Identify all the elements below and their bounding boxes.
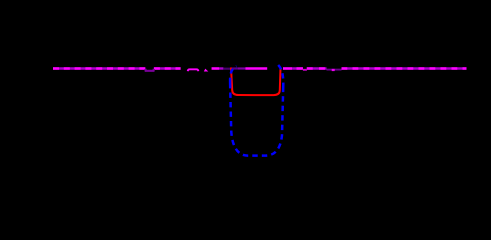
dark faint segment approaching well — [223, 68, 230, 70]
blue dashed deep well: right shoulder — [277, 64, 283, 88]
red solid well — [231, 68, 281, 96]
magenta bridge shape at x~187-198 — [188, 69, 199, 71]
bright magenta over well mouth — [246, 67, 268, 69]
magenta dashes on top of base line (left) — [53, 67, 145, 69]
purple base line (right part) — [283, 67, 467, 69]
blue dashed deep well: main body — [230, 83, 283, 156]
magenta dashes on top of base line (right) — [283, 67, 292, 69]
magenta triangle at x~204-208 — [204, 69, 209, 72]
blue dashed deep well: left shoulder — [230, 66, 236, 83]
purple base line (segment before well) — [212, 67, 224, 69]
magenta dashes (mid segment) — [212, 67, 219, 69]
purple shallow dip at x~145-154 — [145, 69, 153, 71]
small magenta dip at x~303-307 — [303, 69, 307, 71]
dark purple dip with magenta blob at x~326-341 — [327, 69, 342, 71]
dim purple over well mouth — [231, 67, 238, 69]
purple base line (V=0 axis, left part) — [53, 67, 181, 69]
